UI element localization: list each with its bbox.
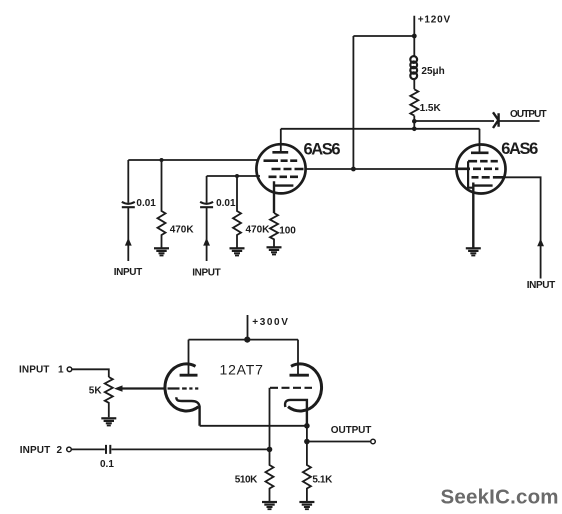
svg-text:2: 2 (57, 445, 63, 456)
inductor L1 25uh (410, 56, 417, 79)
wire output drop (306, 426, 308, 442)
svg-text:6AS6: 6AS6 (501, 140, 538, 158)
wire screen supply top (353, 35, 414, 37)
wire right plate lead (479, 129, 481, 152)
wire V3a plate lead (188, 340, 190, 374)
tube V3a cathode (176, 397, 199, 426)
svg-text:12AT7: 12AT7 (220, 362, 264, 378)
svg-text:0.01: 0.01 (136, 198, 156, 209)
svg-text:25μh: 25μh (421, 66, 444, 77)
node OUTPUT label top (510, 109, 547, 120)
wire plate bus (281, 128, 480, 130)
node INPUT 2 terminal (67, 447, 72, 452)
resistor R7 5.1K (303, 442, 311, 503)
svg-text:100: 100 (279, 226, 296, 237)
wire input 2 lead (206, 208, 208, 262)
ground R6 (262, 502, 277, 509)
node INPUT label middle (192, 268, 220, 279)
tube V1 6AS6 left envelope (256, 144, 305, 193)
potentiometer R5 wiper arrow (121, 388, 166, 390)
svg-text:+300V: +300V (252, 317, 289, 328)
wire V3b grid drop (269, 388, 271, 450)
wire C1 top lead (127, 160, 129, 203)
ground R2 (230, 248, 245, 255)
junction dots bottom circuit (244, 337, 310, 453)
svg-text:6AS6: 6AS6 (304, 141, 341, 159)
tube V1 cathode (274, 181, 293, 213)
resistor R6 510K (266, 449, 274, 502)
potentiometer R5 value label (89, 386, 103, 397)
svg-text:OUTPUT: OUTPUT (510, 109, 547, 120)
wire input 2 left (72, 448, 105, 450)
tube V3b cathode (285, 400, 307, 426)
wire output bottom (307, 441, 371, 443)
node OUTPUT terminal (371, 439, 376, 444)
wire cathode bus bottom (200, 425, 307, 427)
capacitor C3 value label (100, 459, 114, 470)
svg-text:INPUT: INPUT (19, 365, 50, 376)
tube V3b grid (270, 387, 312, 389)
resistor R2 470K (233, 176, 241, 248)
svg-text:0.01: 0.01 (216, 198, 236, 209)
tube V1 grid row1 (264, 159, 299, 162)
watermark SeekIC.com (441, 486, 559, 509)
tube V3b 12AT7 right envelope (288, 364, 322, 411)
node OUTPUT label bottom (331, 425, 372, 436)
node INPUT 1 terminal (67, 367, 72, 372)
wire screen supply vertical (352, 36, 354, 169)
svg-text:INPUT: INPUT (20, 445, 51, 456)
node INPUT 1 label (19, 365, 64, 376)
ground R7 (299, 502, 314, 509)
svg-text:OUTPUT: OUTPUT (331, 425, 372, 436)
capacitor C1 0.01 (122, 202, 135, 207)
capacitor C1 value label (136, 198, 156, 209)
tube V3 label 12AT7 (220, 362, 264, 378)
tube V2 grid row1 (468, 160, 498, 163)
svg-text:1: 1 (58, 365, 64, 376)
wire screen grid bus (305, 168, 458, 170)
junction dots top circuit (160, 34, 417, 178)
tube V2 plate (471, 151, 489, 154)
tube V3a 12AT7 left envelope (165, 364, 199, 411)
tube V1 grid row3 (269, 176, 301, 179)
node +300V label (252, 317, 289, 328)
tube V1 plate (272, 151, 288, 154)
svg-text:0.1: 0.1 (100, 459, 114, 470)
svg-text:INPUT: INPUT (527, 280, 555, 291)
node input 1 arrowhead (125, 238, 132, 246)
svg-text:470K: 470K (246, 225, 271, 236)
ground R5 (101, 418, 116, 425)
wire C2 top lead (206, 176, 208, 203)
capacitor C5 output coupling (493, 112, 499, 128)
svg-text:SeekIC.com: SeekIC.com (441, 486, 559, 509)
wire plate supply bottom (189, 339, 299, 341)
capacitor C3 0.1 (106, 445, 110, 454)
node +300V supply lead (247, 315, 249, 340)
resistor R1 value label (170, 225, 195, 236)
node INPUT 2 label (20, 445, 63, 456)
svg-text:1.5K: 1.5K (420, 103, 442, 114)
ground R4 (267, 247, 282, 254)
wire output top (414, 120, 539, 122)
wire input 1 to pot (72, 369, 109, 377)
capacitor C2 0.01 (200, 202, 213, 207)
resistor R3 1.5K (410, 89, 418, 115)
inductor L1 value label (421, 66, 444, 77)
resistor R3 value label (420, 103, 442, 114)
tube V2 cathode (473, 183, 492, 249)
capacitor C2 value label (216, 198, 236, 209)
tube V2 grid row3 (472, 176, 504, 179)
node +120V label (418, 15, 451, 26)
ground R1 (154, 248, 169, 255)
wire input grid row3 left (207, 175, 260, 177)
wire input grid row1 left (128, 159, 257, 161)
svg-text:+120V: +120V (418, 15, 451, 26)
resistor R4 100 cathode (270, 213, 278, 247)
svg-text:510K: 510K (235, 475, 258, 486)
wire input 1 lead (127, 208, 129, 262)
svg-text:470K: 470K (170, 225, 195, 236)
wire V3b plate lead (297, 340, 299, 374)
tube V2 internal bracket (468, 161, 473, 188)
node +120V supply lead (413, 16, 415, 129)
potentiometer R5 5K (105, 377, 113, 417)
resistor R4 value label (279, 226, 296, 237)
node INPUT label left (114, 267, 142, 278)
svg-text:INPUT: INPUT (192, 268, 220, 279)
tube V3a grid (120, 387, 199, 389)
tube V3a plate (180, 374, 198, 377)
resistor R7 value label (312, 475, 333, 486)
tube V2 label 6AS6 (501, 140, 538, 158)
svg-text:5K: 5K (89, 386, 103, 397)
node INPUT label right (527, 280, 555, 291)
node input right arrowhead (537, 239, 544, 247)
tube V1 label 6AS6 (304, 141, 341, 159)
ground V2 cathode (466, 248, 481, 255)
tube V2 6AS6 right envelope (457, 145, 506, 194)
resistor R1 470K (158, 160, 166, 248)
svg-text:5.1K: 5.1K (312, 475, 333, 486)
resistor R2 value label (246, 225, 271, 236)
wire input 2 right (112, 448, 270, 450)
resistor R6 value label (235, 475, 258, 486)
svg-text:INPUT: INPUT (114, 267, 142, 278)
tube V3b plate (290, 374, 309, 377)
wire left plate lead (280, 129, 282, 152)
tube V2 grid row2 screen (457, 168, 498, 171)
wire V2 grid row3 to input (504, 177, 541, 278)
node input 2 arrowhead (203, 238, 210, 246)
tube V1 grid row2 screen (272, 168, 304, 171)
